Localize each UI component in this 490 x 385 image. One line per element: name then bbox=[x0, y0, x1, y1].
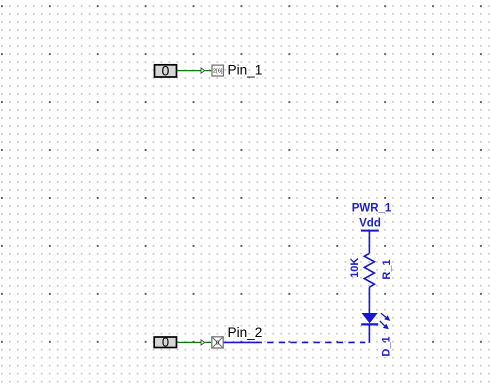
svg-text:PWR_1: PWR_1 bbox=[352, 202, 392, 214]
svg-text:0: 0 bbox=[162, 335, 169, 350]
svg-text:0: 0 bbox=[162, 64, 170, 80]
svg-text:Vdd: Vdd bbox=[359, 218, 381, 230]
svg-text:D_1: D_1 bbox=[380, 336, 392, 356]
svg-text:Pin_1: Pin_1 bbox=[228, 63, 263, 78]
svg-text:Pin_2: Pin_2 bbox=[228, 325, 263, 340]
svg-text:2[6]: 2[6] bbox=[213, 69, 223, 75]
svg-text:R_1: R_1 bbox=[381, 259, 393, 279]
svg-text:0: 0 bbox=[216, 341, 219, 347]
svg-text:10K: 10K bbox=[349, 258, 361, 278]
